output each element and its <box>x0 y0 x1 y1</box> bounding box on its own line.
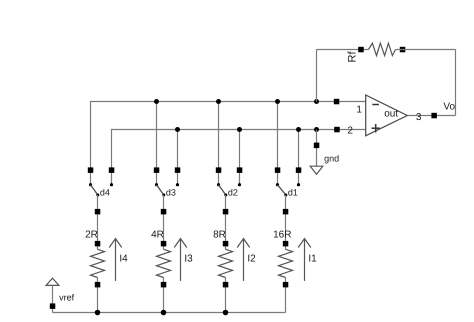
wire d2 left column <box>218 102 220 185</box>
svg-text:1: 1 <box>356 105 362 116</box>
op-amp plus input mark <box>372 127 380 129</box>
terminal square on output <box>431 113 437 119</box>
svg-text:3: 3 <box>416 112 422 123</box>
svg-text:I4: I4 <box>119 254 128 265</box>
wire d1 left column <box>277 102 279 185</box>
node junction dots on lower bus <box>175 127 319 132</box>
op-amp U1 triangle <box>366 95 408 136</box>
wire feedback riser from top bus <box>316 50 318 102</box>
terminal square on gnd branch <box>314 143 320 149</box>
svg-text:gnd: gnd <box>324 153 339 163</box>
switch d3 contacts and blade <box>155 183 179 196</box>
svg-text:out: out <box>384 108 398 119</box>
svg-text:2R: 2R <box>85 229 98 240</box>
wire d1 pole down to resistor 16R and bottom bus <box>285 195 287 249</box>
ground <box>310 166 323 174</box>
resistor Rf <box>358 43 405 55</box>
wire output horizontal <box>407 115 455 117</box>
op-amp minus input mark <box>372 104 379 106</box>
wire output riser at right edge <box>455 50 457 116</box>
wire d3 right column <box>177 130 179 185</box>
switch d1 contacts and blade <box>276 183 300 196</box>
terminal square on op-amp pin 2 wire <box>334 127 340 133</box>
svg-text:d3: d3 <box>166 188 176 198</box>
resistor 2R <box>91 241 105 288</box>
wire d3 left column <box>156 102 158 185</box>
wire d2 right column <box>239 130 241 185</box>
wire gnd branch <box>316 130 318 167</box>
svg-text:d4: d4 <box>100 188 110 198</box>
arrow I1 <box>298 239 311 281</box>
wire d1 right column <box>298 130 300 185</box>
terminal square below switch d4 pole <box>95 209 101 215</box>
vref source symbol <box>46 278 59 312</box>
arrow I4 <box>109 239 122 281</box>
resistor 4R <box>157 241 171 288</box>
wire d2 pole down to resistor 8R and bottom bus <box>225 195 227 249</box>
wire lower bus (non-inverting input net) <box>112 130 366 185</box>
wire feedback top rail (left of Rf) <box>317 49 369 51</box>
node junction dots on top bus <box>154 99 319 104</box>
switch d4 contacts and blade <box>89 183 113 196</box>
svg-text:I2: I2 <box>247 254 256 265</box>
svg-text:d2: d2 <box>228 188 238 198</box>
svg-text:I3: I3 <box>184 254 193 265</box>
terminal square below switch d2 pole <box>223 209 229 215</box>
svg-text:16R: 16R <box>273 229 291 240</box>
svg-text:2: 2 <box>347 126 353 137</box>
terminal square below switch d1 pole <box>283 209 289 215</box>
svg-text:Vo: Vo <box>443 101 455 112</box>
wire feedback top rail (right of Rf) <box>396 49 456 51</box>
terminal square below switch d3 pole <box>161 209 167 215</box>
switch d1 terminal squares <box>275 167 281 173</box>
arrow I3 <box>174 239 187 281</box>
svg-text:4R: 4R <box>151 229 164 240</box>
resistor 16R <box>279 241 293 288</box>
switch d3 terminal squares <box>154 167 160 173</box>
svg-text:d1: d1 <box>288 188 298 198</box>
terminal square on op-amp pin 1 wire <box>334 99 340 105</box>
switch d2 terminal squares <box>216 167 222 173</box>
svg-text:vref: vref <box>59 292 75 302</box>
node bottom bus junction dots <box>95 310 229 316</box>
svg-text:8R: 8R <box>213 229 226 240</box>
wire d4 pole down to resistor 2R and bottom bus <box>97 195 99 249</box>
svg-text:Rf: Rf <box>347 51 359 63</box>
wire top bus (inverting input net) <box>91 102 366 185</box>
svg-text:I1: I1 <box>308 254 317 265</box>
switch d4 terminal squares <box>88 167 94 173</box>
switch d2 contacts and blade <box>217 183 241 196</box>
wire d3 pole down to resistor 4R and bottom bus <box>163 195 165 249</box>
arrow I2 <box>237 239 250 281</box>
resistor 8R <box>219 241 233 288</box>
wire bottom bus (vref net) <box>53 312 286 314</box>
